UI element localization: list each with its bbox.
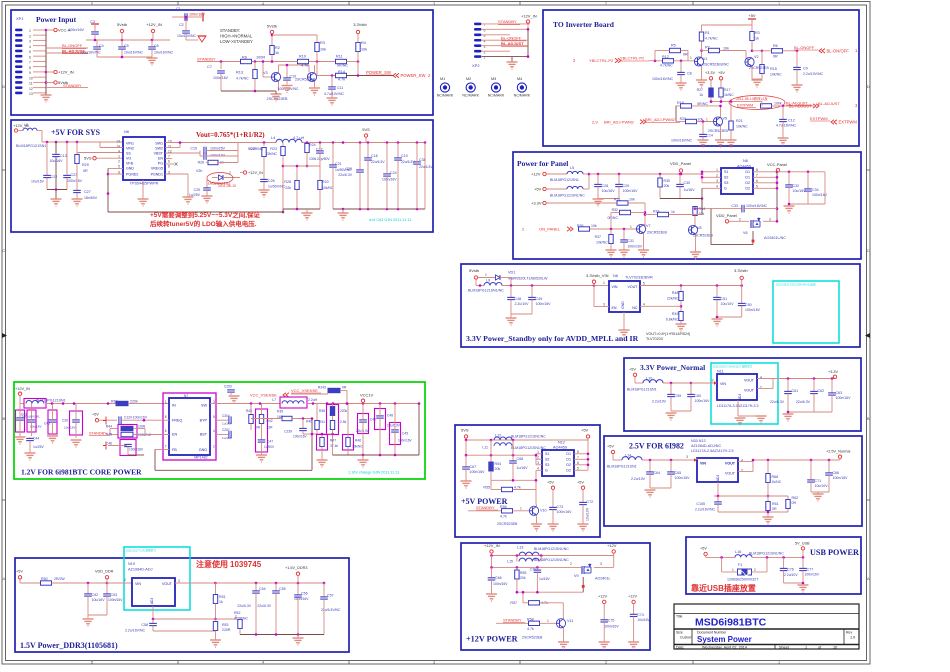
svg-text:Size: Size <box>676 631 683 635</box>
svg-text:0R: 0R <box>772 507 777 511</box>
svg-text:2011-06-10: 2011-06-10 <box>218 184 236 188</box>
svg-text:BL-ONOFF: BL-ONOFF <box>794 45 815 50</box>
svg-text:R46: R46 <box>355 439 361 443</box>
ground V8 <box>690 251 701 253</box>
svg-text:R61: R61 <box>772 502 779 506</box>
svg-text:10u/10V: 10u/10V <box>586 507 590 521</box>
svg-text:R51: R51 <box>219 595 226 599</box>
ground C73 <box>548 523 559 525</box>
ground R21 <box>726 139 737 141</box>
svg-text:B: B <box>867 416 870 421</box>
svg-text:TLV70233DBVR: TLV70233DBVR <box>625 276 653 280</box>
wire V4 to POWER_SW <box>357 62 359 76</box>
svg-text:V3: V3 <box>263 71 268 75</box>
svg-text:N11: N11 <box>717 370 724 374</box>
svg-text:+5V: +5V <box>16 570 23 574</box>
resistor R54 <box>490 455 492 462</box>
transistor V2 <box>745 57 754 66</box>
svg-text:C11: C11 <box>337 86 343 90</box>
svg-text:R14: R14 <box>338 70 345 74</box>
svg-text:BLM18PG121SN1/NC: BLM18PG121SN1/NC <box>550 194 585 198</box>
svg-text:ON_PANEL: ON_PANEL <box>539 227 561 232</box>
capacitor C65 <box>670 460 672 472</box>
svg-text:C58: C58 <box>141 623 148 627</box>
capacitor C21 <box>332 143 334 165</box>
svg-text:5VS: 5VS <box>84 156 92 161</box>
svg-text:C14: C14 <box>707 134 713 138</box>
svg-text:3: 3 <box>769 217 771 221</box>
svg-text:C1: C1 <box>176 7 181 11</box>
svg-text:PGND1: PGND1 <box>151 173 163 177</box>
svg-text:TLV70233: TLV70233 <box>646 337 663 341</box>
resistor R36 <box>327 405 339 435</box>
wire pwm node <box>711 101 762 103</box>
svg-text:1039745: 1039745 <box>230 560 262 569</box>
capacitor C49 <box>531 286 533 298</box>
svg-text:C71: C71 <box>815 479 822 483</box>
svg-text:3.3V Power_Normal: 3.3V Power_Normal <box>640 363 705 372</box>
svg-text:N6: N6 <box>743 159 748 163</box>
svg-text:4: 4 <box>262 2 264 6</box>
svg-text:22u/6.3V: 22u/6.3V <box>338 173 352 177</box>
svg-text:NC/MARK: NC/MARK <box>488 94 505 98</box>
svg-text:R31: R31 <box>614 198 621 202</box>
svg-text:2SCR523EB: 2SCR523EB <box>522 636 543 640</box>
svg-text:V1: V1 <box>703 57 708 61</box>
block +12V POWER <box>461 543 650 650</box>
net label STANDBY pin12 <box>46 87 88 89</box>
resistor R15 <box>752 50 762 52</box>
svg-text:1: 1 <box>778 660 780 664</box>
svg-text:1.5V Power_DDR3(1105681): 1.5V Power_DDR3(1105681) <box>20 641 118 650</box>
svg-text:VCC-Panel: VCC-Panel <box>767 162 787 167</box>
svg-text:D: D <box>2 84 5 89</box>
svg-text:100n/16V/NC: 100n/16V/NC <box>671 139 692 143</box>
svg-text:EN: EN <box>172 433 177 437</box>
svg-text:100n/16V: 100n/16V <box>557 510 573 514</box>
svg-text:EXTPWM: EXTPWM <box>839 120 858 125</box>
svg-text:13: 13 <box>29 92 33 96</box>
svg-text:D1: D1 <box>745 170 750 174</box>
resistor R30 <box>659 174 661 178</box>
ground pgnd1 <box>183 196 194 198</box>
ground C22 <box>51 198 62 200</box>
svg-text:+5V FOR SYS: +5V FOR SYS <box>51 128 101 137</box>
svg-text:R23: R23 <box>270 147 277 151</box>
capacitor C53 <box>106 583 108 594</box>
resistor R34 <box>695 208 711 210</box>
svg-text:Vout=0.765*(1+R1/R2): Vout=0.765*(1+R1/R2) <box>196 131 265 139</box>
svg-text:EXTPWM: EXTPWM <box>737 104 753 108</box>
svg-text:100n/16V: 100n/16V <box>68 28 84 32</box>
svg-text:C75: C75 <box>608 619 615 623</box>
svg-text:3: 3 <box>686 455 688 459</box>
svg-text:TPS54425PWPR: TPS54425PWPR <box>130 182 159 186</box>
ground C51 <box>712 318 723 320</box>
resistor R56 <box>502 509 513 513</box>
inductor L8 core <box>24 399 46 409</box>
svg-text:Power for Panel: Power for Panel <box>517 159 568 168</box>
capacitor C41 core <box>27 410 36 432</box>
svg-text:后续转tuner5V的 LDO输入供电电压.: 后续转tuner5V的 LDO输入供电电压. <box>150 219 257 228</box>
svg-text:NC: NC <box>632 306 638 310</box>
svg-text:R3: R3 <box>755 31 760 35</box>
svg-text:R24: R24 <box>309 143 316 147</box>
svg-text:10u/10V: 10u/10V <box>815 484 829 488</box>
svg-text:2.2uH: 2.2uH <box>308 398 318 402</box>
svg-text:SW2: SW2 <box>155 147 163 151</box>
svg-text:R5: R5 <box>671 44 676 48</box>
svg-text:22u/6.3V: 22u/6.3V <box>237 604 251 608</box>
svg-text:C63: C63 <box>836 391 843 395</box>
svg-text:R56: R56 <box>500 505 507 509</box>
svg-text:22u/6.3V: 22u/6.3V <box>401 160 415 164</box>
resistor R18 <box>681 104 692 108</box>
svg-text:C56: C56 <box>301 592 308 596</box>
svg-text:C304: C304 <box>222 414 230 418</box>
svg-text:BL-ADJUST: BL-ADJUST <box>501 41 524 46</box>
capacitor C8 <box>680 61 682 73</box>
block +5V FOR SYS <box>11 120 433 232</box>
svg-text:2: 2 <box>754 568 756 572</box>
svg-text:3: 3 <box>433 660 435 664</box>
capacitor C9 <box>796 51 798 68</box>
svg-text:11: 11 <box>168 145 172 149</box>
svg-text:L7: L7 <box>272 398 276 402</box>
svg-text:R52: R52 <box>234 611 240 615</box>
ground out <box>338 212 349 214</box>
svg-text:EN: EN <box>612 306 617 310</box>
svg-text:3.3Vstb: 3.3Vstb <box>353 22 367 27</box>
svg-text:9: 9 <box>29 71 31 75</box>
svg-text:1: 1 <box>118 155 120 159</box>
svg-text:MSD6i981BTC: MSD6i981BTC <box>695 617 767 629</box>
capacitor C25 <box>206 178 208 188</box>
svg-text:VOUT: VOUT <box>725 472 736 476</box>
ground C71 <box>813 493 824 495</box>
svg-text:+12V_IN: +12V_IN <box>58 70 74 75</box>
svg-text:D1: D1 <box>566 452 571 456</box>
resistor R46 <box>343 435 354 451</box>
svg-text:22u/6.3V: 22u/6.3V <box>770 400 785 404</box>
svg-text:3: 3 <box>29 40 31 44</box>
svg-text:靠近USB插座放置: 靠近USB插座放置 <box>691 583 756 593</box>
block Power for Panel <box>513 152 861 259</box>
svg-text:R43: R43 <box>246 409 252 413</box>
svg-text:+3.3V: +3.3V <box>828 370 838 374</box>
svg-text:N12: N12 <box>558 441 565 445</box>
capacitor C47 <box>258 439 266 441</box>
svg-text:220k: 220k <box>130 400 138 404</box>
resistor R41 <box>330 421 334 430</box>
svg-text:10: 10 <box>29 76 33 80</box>
svg-text:C72: C72 <box>587 500 594 504</box>
svg-text:C46: C46 <box>106 442 112 446</box>
capacitor C54 <box>255 583 257 591</box>
svg-text:S3: S3 <box>724 181 728 185</box>
svg-text:0R: 0R <box>773 55 778 59</box>
resistor R68 <box>767 460 769 474</box>
svg-text:7: 7 <box>165 445 167 449</box>
svg-text:N8: N8 <box>613 274 618 278</box>
wire gate 12vp <box>517 591 583 593</box>
svg-text:10u/16V: 10u/16V <box>602 189 616 193</box>
svg-text:R21: R21 <box>736 119 743 123</box>
svg-text:5V_USB: 5V_USB <box>795 542 810 546</box>
svg-text:3: 3 <box>603 303 605 307</box>
wire bottom rail V3 <box>221 90 274 92</box>
svg-text:R10: R10 <box>299 55 306 59</box>
svg-text:Custom: Custom <box>680 636 692 640</box>
svg-text:0R/NC: 0R/NC <box>697 102 708 106</box>
svg-text:10k: 10k <box>699 212 705 216</box>
resistor R45 <box>121 432 133 436</box>
transistor V1 <box>694 57 703 66</box>
svg-text:100R: 100R <box>256 56 265 60</box>
svg-text:C68: C68 <box>517 457 524 461</box>
svg-text:8: 8 <box>29 66 31 70</box>
svg-text:2011-06-10修改以及: 2011-06-10修改以及 <box>736 96 768 101</box>
capacitor C57 <box>323 583 325 597</box>
svg-text:C15: C15 <box>190 147 197 151</box>
svg-text:POWER_SW: POWER_SW <box>401 73 426 78</box>
block USB POWER <box>686 537 861 594</box>
svg-text:2SCR523EB: 2SCR523EB <box>295 78 316 82</box>
svg-text:C49: C49 <box>536 297 543 301</box>
svg-text:13: 13 <box>116 140 120 144</box>
wire xp2 pin5 <box>482 34 510 36</box>
transistor V5 <box>713 117 722 126</box>
svg-text:100n/16V: 100n/16V <box>294 597 309 601</box>
svg-text:2011/10/27 GJN:替换型号: 2011/10/27 GJN:替换型号 <box>126 549 156 553</box>
svg-text:R62: R62 <box>792 496 799 500</box>
wire 5vp g pin <box>536 469 542 471</box>
svg-text:100n/16V: 100n/16V <box>604 624 619 628</box>
svg-text:C253: C253 <box>224 385 232 389</box>
svg-text:22u/6.3V: 22u/6.3V <box>371 160 385 164</box>
capacitor C68r <box>413 161 421 163</box>
svg-text:100n/16V/NC: 100n/16V/NC <box>652 77 673 81</box>
svg-text:4.7k/NC: 4.7k/NC <box>660 64 673 68</box>
svg-text:YBLCTRL-P2: YBLCTRL-P2 <box>620 56 645 61</box>
svg-text:2.5V FOR 6I982: 2.5V FOR 6I982 <box>629 442 684 451</box>
svg-text:VO: VO <box>126 157 131 161</box>
svg-text:BLM18PG121SN1/NC: BLM18PG121SN1/NC <box>534 558 569 562</box>
svg-text:5: 5 <box>643 282 645 286</box>
svg-text:2: 2 <box>118 160 120 164</box>
capacitor C48b <box>375 409 386 430</box>
wire S pins <box>702 171 721 173</box>
wire 5Vstb to R3 <box>271 34 273 46</box>
svg-text:S1: S1 <box>724 170 728 174</box>
svg-text:C67: C67 <box>470 465 477 469</box>
svg-text:2.2u/16V/NC: 2.2u/16V/NC <box>695 508 716 512</box>
svg-text:1k: 1k <box>755 37 759 41</box>
nc mark PG <box>165 163 174 165</box>
svg-text:BRI_ADJ-PWM2: BRI_ADJ-PWM2 <box>645 117 676 122</box>
svg-text:C76: C76 <box>787 568 794 572</box>
svg-text:5: 5 <box>91 2 93 6</box>
capacitor C267 <box>216 434 228 436</box>
svg-text:L4: L4 <box>271 136 275 140</box>
svg-text:0R/NC: 0R/NC <box>607 216 618 220</box>
ground usb <box>798 584 809 586</box>
resistor R13 <box>254 62 256 70</box>
ground C12 <box>778 137 789 139</box>
svg-text:2SCR523EB: 2SCR523EB <box>497 522 518 526</box>
svg-text:100n/16V: 100n/16V <box>398 439 413 443</box>
svg-text:C239: C239 <box>284 430 292 434</box>
wire 5vp d pins <box>574 453 588 455</box>
svg-text:D2: D2 <box>745 181 750 185</box>
svg-text:10k/NC: 10k/NC <box>770 73 782 77</box>
ground caps <box>147 57 158 59</box>
svg-text:ADJ: ADJ <box>716 474 720 481</box>
svg-text:2: 2 <box>739 217 741 221</box>
svg-text:C7: C7 <box>207 65 212 69</box>
svg-text:5Vstb: 5Vstb <box>267 24 278 29</box>
mosfet V6 AO3401L <box>750 220 752 228</box>
svg-text:STANDBY: STANDBY <box>89 432 107 436</box>
node VCC-A pin1 <box>45 29 48 32</box>
svg-text:130k: 130k <box>309 157 317 161</box>
svg-text:2012/10/23 GJN:C50/C49 NC改用: 2012/10/23 GJN:C50/C49 NC改用 <box>776 283 816 287</box>
offpage POWER_SW <box>393 73 399 77</box>
svg-text:A: A <box>867 576 870 581</box>
svg-text:C6: C6 <box>154 44 159 48</box>
net label BL-ONOFF xp2 <box>482 39 528 41</box>
svg-text:R29: R29 <box>82 163 89 167</box>
svg-text:R13: R13 <box>236 71 243 75</box>
svg-text:5: 5 <box>91 660 93 664</box>
svg-text:2: 2 <box>29 34 31 38</box>
block 1.2V FOR 6i981BTC CORE POWER <box>14 382 425 479</box>
svg-text:C61: C61 <box>792 389 799 393</box>
svg-text:1u/16V: 1u/16V <box>684 188 696 192</box>
svg-text:FREQ: FREQ <box>172 419 182 423</box>
svg-text:M2: M2 <box>466 77 471 81</box>
svg-text:4.7k: 4.7k <box>527 627 534 631</box>
resistor R2 <box>270 46 274 55</box>
ground R37 <box>606 249 617 251</box>
resistor R32 <box>620 210 631 214</box>
svg-text:6: 6 <box>29 55 31 59</box>
capacitor C17 <box>316 150 324 152</box>
capacitor C34 <box>807 172 809 189</box>
svg-text:AZ1084D-ADJ/NC: AZ1084D-ADJ/NC <box>691 444 721 448</box>
svg-text:C28: C28 <box>602 184 609 188</box>
ground R53 <box>210 639 221 641</box>
transistor V8 <box>688 225 697 234</box>
resistor R243 <box>328 388 340 392</box>
svg-text:M4: M4 <box>517 77 522 81</box>
svg-text:R7: R7 <box>705 46 710 50</box>
svg-text:4.7k: 4.7k <box>338 78 345 82</box>
capacitor C28 <box>597 174 599 184</box>
ground ic stby <box>623 312 625 330</box>
wire VIN2 <box>100 147 123 149</box>
svg-text:R44: R44 <box>106 425 112 429</box>
svg-text:C51: C51 <box>721 297 728 301</box>
svg-text:SW: SW <box>201 404 207 408</box>
ground V11 <box>558 641 569 643</box>
svg-text:2.2u/10V: 2.2u/10V <box>652 400 667 404</box>
svg-text:XP1: XP1 <box>16 16 24 21</box>
svg-text:4.7u/10V/NC: 4.7u/10V/NC <box>324 92 345 96</box>
transistor V3 <box>271 72 280 81</box>
svg-text:22k/NC: 22k/NC <box>266 152 278 156</box>
svg-text:+5V: +5V <box>547 481 554 485</box>
resistor R47 <box>317 435 328 451</box>
svg-text:BL-ADJUST: BL-ADJUST <box>789 103 812 108</box>
wire vout stby <box>640 285 742 287</box>
svg-text:Sheet: Sheet <box>779 645 790 649</box>
capacitor C30 <box>679 174 681 184</box>
svg-text:L5: L5 <box>570 166 574 170</box>
svg-text:BLM18PG121SN1/NC: BLM18PG121SN1/NC <box>511 446 546 450</box>
wire top cap rail <box>86 39 170 41</box>
svg-text:C74: C74 <box>637 613 644 617</box>
annotation ellipse EXTPWM <box>729 96 785 110</box>
svg-text:+5V: +5V <box>718 71 725 75</box>
svg-text:L13: L13 <box>517 546 523 550</box>
block 1.5V Power_DDR3 <box>15 558 349 652</box>
svg-text:D1: D1 <box>566 458 571 462</box>
resistor R24 <box>306 143 308 144</box>
resistor R9 <box>241 59 252 63</box>
svg-text:2SCR523EB: 2SCR523EB <box>693 234 714 238</box>
svg-text:4.7k: 4.7k <box>301 64 308 68</box>
svg-text:3.3Vstb_VIN: 3.3Vstb_VIN <box>586 273 609 278</box>
svg-text:22u/6.3V: 22u/6.3V <box>257 604 271 608</box>
resistor R49 <box>679 312 683 321</box>
svg-text:R48: R48 <box>672 291 679 295</box>
wire vcc rail right <box>777 171 825 173</box>
capacitor C63 <box>831 379 833 393</box>
svg-text:+12V POWER: +12V POWER <box>466 635 518 644</box>
svg-text:100n/16V: 100n/16V <box>695 399 711 403</box>
svg-text:1u/25V: 1u/25V <box>189 193 201 197</box>
svg-text:VOUT: VOUT <box>725 462 736 466</box>
power VCC-A bar <box>91 23 99 25</box>
wire pin9 +12V_IN <box>45 71 48 74</box>
svg-text:L11: L11 <box>482 446 488 450</box>
capacitor C72 <box>579 501 587 503</box>
svg-text:3: 3 <box>178 579 180 583</box>
svg-text:YBLCTRL-P2: YBLCTRL-P2 <box>589 58 614 63</box>
wire collector rail <box>279 64 310 66</box>
ground R47 <box>317 459 328 461</box>
svg-text:+5V: +5V <box>748 13 756 18</box>
svg-text:C65: C65 <box>675 471 682 475</box>
svg-text:AO3401L: AO3401L <box>595 577 611 581</box>
port +12V_IN mid <box>243 171 246 174</box>
wire core bottom rail <box>418 404 420 456</box>
ground C42 <box>15 436 26 438</box>
svg-text:STANDBY: STANDBY <box>498 19 517 24</box>
svg-text:BL-ON/OFF: BL-ON/OFF <box>827 48 850 53</box>
annotation cyan box ddr <box>124 547 190 610</box>
ground XP1 <box>41 94 52 96</box>
svg-text:USB POWER: USB POWER <box>810 548 859 557</box>
resistor R2 inv <box>676 121 686 123</box>
svg-text:14: 14 <box>116 145 120 149</box>
svg-text:1k: 1k <box>275 51 279 55</box>
svg-text:R18: R18 <box>677 101 684 105</box>
svg-text:4.7k/NC: 4.7k/NC <box>236 77 249 81</box>
svg-text:1k/NC: 1k/NC <box>724 93 734 97</box>
svg-text:VOUT: VOUT <box>628 285 639 289</box>
